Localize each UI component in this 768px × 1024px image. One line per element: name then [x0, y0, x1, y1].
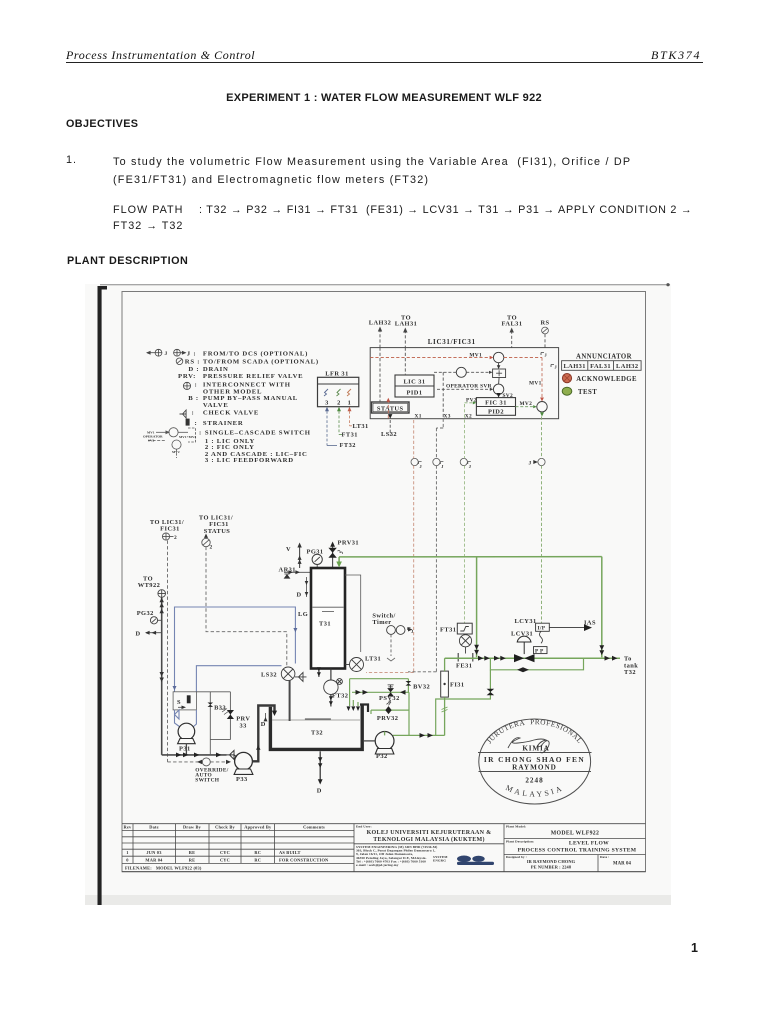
controller box LIC31/FIC31	[370, 348, 558, 419]
bypass B33 branch	[196, 691, 230, 693]
recorder input arrows	[325, 407, 329, 412]
svg-text:FIC31: FIC31	[160, 526, 180, 533]
svg-text:FI31: FI31	[450, 681, 465, 688]
svg-text:SWITCH: SWITCH	[195, 778, 219, 784]
svg-text:P33: P33	[236, 776, 248, 783]
X3 signal line to switch/timer	[408, 419, 443, 672]
LCV31 bypass line	[490, 658, 583, 670]
svg-text:PE NUMBER : 2248: PE NUMBER : 2248	[531, 865, 572, 870]
svg-text:CHECK VALVE: CHECK VALVE	[203, 409, 259, 416]
blue drop to P31	[175, 710, 197, 727]
svg-text:WT922: WT922	[138, 582, 161, 589]
MV2 signal line to LCY31	[541, 417, 543, 624]
strainer box	[173, 692, 196, 710]
X2 signal line to FT31	[464, 404, 466, 623]
main suction line left	[162, 597, 227, 755]
stamp signature	[508, 738, 549, 753]
LS32 status input	[388, 414, 392, 419]
svg-text::: :	[195, 381, 198, 388]
recorder pens	[324, 389, 328, 396]
svg-text:Designed by :: Designed by :	[506, 855, 527, 859]
svg-text:RS :: RS :	[185, 359, 200, 366]
flow element transmitter circle	[459, 635, 471, 647]
orifice FE31	[457, 653, 459, 662]
LS32 probe into T32	[289, 681, 291, 721]
svg-text:Approved By: Approved By	[244, 825, 272, 830]
svg-text:FOR CONSTRUCTION: FOR CONSTRUCTION	[279, 857, 329, 862]
annunciator windows	[562, 361, 642, 371]
J circle on X1 line	[411, 458, 422, 465]
svg-text:SV2: SV2	[503, 393, 514, 399]
svg-text:LAH32: LAH32	[369, 320, 392, 327]
flow path line 2	[113, 220, 183, 232]
svg-text:V: V	[286, 546, 291, 553]
svg-text:D: D	[136, 631, 141, 638]
svg-text:2: 2	[210, 545, 213, 551]
svg-text:X3: X3	[444, 413, 451, 419]
revision table headers	[124, 825, 325, 830]
flow path line 1	[113, 204, 183, 216]
svg-text:Rev: Rev	[124, 825, 133, 830]
svg-text:LAH31: LAH31	[395, 321, 418, 328]
main process pipe to LCV31	[445, 657, 620, 659]
svg-text:3 : LIC FEEDFORWARD: 3 : LIC FEEDFORWARD	[205, 457, 294, 464]
svg-text:LG: LG	[298, 611, 308, 618]
objective item number	[66, 154, 77, 166]
svg-text:PID2: PID2	[488, 409, 504, 416]
svg-text:ANNUNCIATOR: ANNUNCIATOR	[576, 353, 632, 360]
svg-text:MV1: MV1	[529, 381, 542, 387]
title block grid	[122, 824, 646, 872]
svg-text:PRESSURE RELIEF VALVE: PRESSURE RELIEF VALVE	[203, 373, 304, 380]
P33 discharge riser	[252, 706, 274, 762]
selector to summer arrow	[466, 371, 490, 373]
MV2 circle	[537, 402, 547, 412]
T32 right wall hook	[360, 705, 368, 713]
revision rows	[125, 850, 329, 870]
vendor address	[356, 845, 437, 867]
svg-text:PUMP BY–PASS MANUAL: PUMP BY–PASS MANUAL	[203, 395, 298, 402]
svg-text:FT31: FT31	[440, 627, 456, 634]
svg-text:KOLEJ UNIVERSITI KEJURUTERAAN: KOLEJ UNIVERSITI KEJURUTERAAN &	[367, 830, 492, 836]
svg-text:D: D	[317, 788, 322, 795]
legend symbol check valve	[180, 410, 187, 418]
BV32 return line	[350, 678, 409, 680]
svg-text::: :	[199, 429, 202, 436]
svg-text:T31: T31	[319, 620, 331, 627]
summer to SVR circle	[498, 378, 501, 385]
pump P31	[178, 723, 195, 740]
header rule	[66, 62, 703, 63]
selector circle	[456, 367, 466, 377]
svg-text:2: 2	[174, 535, 177, 541]
vendor logo	[433, 855, 494, 865]
gray internal drops	[379, 348, 381, 402]
svg-text:DRAIN: DRAIN	[203, 366, 229, 373]
T32 bottom drain	[319, 751, 321, 780]
svg-text:FIC 31: FIC 31	[485, 399, 507, 406]
control valve LCV31	[514, 654, 535, 662]
svg-text:SV2: SV2	[148, 438, 155, 442]
T31 bottom stubs	[318, 669, 320, 677]
green top pipe	[339, 556, 602, 558]
MV1 selector circle	[493, 352, 503, 362]
svg-text:33: 33	[240, 722, 247, 729]
svg-text:Date :: Date :	[600, 855, 609, 859]
tank T31	[311, 568, 345, 669]
flow arrows on main pipe	[478, 656, 484, 661]
summer block	[493, 369, 506, 378]
test button	[562, 387, 572, 395]
svg-text:MV1+MV2: MV1+MV2	[179, 435, 197, 439]
svg-text:FE31: FE31	[456, 663, 472, 670]
svg-text:RAYMOND: RAYMOND	[512, 764, 557, 772]
svg-text:1: 1	[348, 400, 352, 407]
svg-text:RC: RC	[254, 857, 261, 862]
svg-text:Plant Description:: Plant Description:	[506, 839, 534, 843]
legend symbol J from-dcs	[147, 349, 186, 356]
svg-text:KIMIA: KIMIA	[522, 745, 549, 753]
svg-text:LEVEL FLOW: LEVEL FLOW	[569, 841, 609, 847]
P32 discharge line	[393, 734, 445, 736]
svg-text:Comments: Comments	[303, 825, 325, 830]
svg-text:MV2: MV2	[172, 450, 180, 454]
svg-text:P32: P32	[376, 753, 388, 760]
svg-text:TO/FROM SCADA (OPTIONAL): TO/FROM SCADA (OPTIONAL)	[203, 359, 319, 366]
pump P32	[375, 732, 394, 751]
svg-text:FAL31: FAL31	[590, 363, 611, 370]
svg-text:LCY31: LCY31	[515, 618, 537, 625]
svg-text:LIC31/FIC31: LIC31/FIC31	[428, 338, 476, 346]
svg-text:Plant Model:: Plant Model:	[506, 824, 526, 828]
X1 signal line LT31 to LIC	[366, 420, 414, 673]
legend symbol RS scada	[176, 358, 183, 365]
scan top edge line	[100, 284, 670, 286]
svg-text:e-mail : sesb@pd.jaring.my: e-mail : sesb@pd.jaring.my	[356, 863, 399, 867]
svg-text:MODEL WLF922: MODEL WLF922	[551, 831, 599, 837]
PSV32 return riser	[408, 692, 410, 735]
green down pipe right	[601, 557, 603, 658]
svg-text:JUN 03: JUN 03	[146, 850, 162, 855]
relief valve PRV33 branch	[229, 692, 231, 740]
svg-text:2: 2	[337, 400, 341, 407]
svg-text:TEST: TEST	[578, 389, 597, 396]
svg-text:LFR 31: LFR 31	[325, 371, 348, 378]
J circle on X3 line	[433, 458, 444, 465]
svg-text:STATUS: STATUS	[204, 528, 231, 535]
svg-text:FT32: FT32	[332, 693, 348, 700]
svg-text:RC: RC	[254, 850, 261, 855]
green feed into T31 top	[338, 557, 340, 564]
PLANT DESCRIPTION heading	[67, 255, 188, 267]
svg-text:I/P: I/P	[538, 626, 546, 632]
drain branch below bypass	[436, 670, 491, 736]
P32 suction	[364, 740, 375, 742]
svg-text:Check By: Check By	[215, 825, 235, 830]
flow arrows on suction header	[176, 753, 189, 758]
svg-text:FAL31: FAL31	[502, 321, 523, 328]
svg-text:STATUS: STATUS	[377, 405, 404, 412]
svg-text:STRAINER: STRAINER	[203, 420, 244, 427]
svg-text::: :	[192, 409, 195, 416]
svg-text:LT31: LT31	[365, 656, 381, 663]
dashed link LIC to selector	[434, 371, 456, 373]
objective text	[113, 154, 673, 189]
green FT31 branch pipe	[476, 557, 478, 658]
svg-text:PID1: PID1	[406, 390, 422, 397]
OBJECTIVES heading	[66, 118, 138, 130]
svg-text:FT32: FT32	[340, 442, 356, 449]
svg-text:1: 1	[126, 850, 128, 855]
svg-text:X2: X2	[465, 413, 472, 419]
svg-text:RS: RS	[540, 320, 549, 327]
J pigtails near MV1	[541, 353, 544, 356]
svg-text:P P: P P	[535, 649, 544, 655]
J circle on MV2 line	[538, 458, 545, 465]
svg-text:X1: X1	[415, 413, 422, 419]
SVR circle	[493, 384, 503, 394]
svg-text:SINGLE–CASCADE SWITCH: SINGLE–CASCADE SWITCH	[205, 429, 311, 436]
pump P33	[235, 752, 253, 770]
svg-text:T32: T32	[624, 669, 636, 676]
svg-text:MAR 04: MAR 04	[145, 857, 163, 862]
svg-text:LAH31: LAH31	[563, 363, 586, 370]
svg-text:AS BUILT: AS BUILT	[279, 850, 301, 855]
magnetic flow meter FT32	[324, 679, 343, 695]
check valve before P33	[227, 750, 235, 759]
svg-text:PRV31: PRV31	[338, 539, 360, 546]
svg-text:Timer: Timer	[372, 619, 391, 626]
page header right	[651, 48, 701, 63]
scan background	[85, 284, 671, 905]
blue LG loop upper	[175, 607, 296, 692]
svg-text:3: 3	[325, 400, 329, 407]
svg-text:J: J	[165, 351, 168, 357]
legend symbol interconnect	[183, 382, 190, 389]
svg-text:MAR 04: MAR 04	[613, 862, 632, 867]
svg-text:PRV:: PRV:	[178, 373, 196, 380]
svg-text:LS32: LS32	[381, 431, 397, 438]
svg-text:Date: Date	[149, 825, 159, 830]
svg-text:IR RAYMOND CHONG: IR RAYMOND CHONG	[527, 859, 576, 864]
svg-text:P31: P31	[179, 745, 191, 752]
svg-text:CYC: CYC	[220, 850, 230, 855]
controller FIC31 PID2	[476, 398, 515, 416]
check valve between LS32 and T31 drain	[295, 672, 307, 681]
svg-text:RE: RE	[189, 857, 196, 862]
svg-text:2248: 2248	[525, 776, 543, 784]
acknowledge button	[562, 374, 571, 383]
valve BV32	[407, 679, 409, 693]
svg-text:S: S	[177, 699, 181, 706]
svg-text:RE: RE	[189, 850, 196, 855]
svg-text:J :: J :	[187, 350, 197, 357]
svg-text:LAH32: LAH32	[616, 363, 639, 370]
MV1 circle to summer	[498, 363, 500, 368]
svg-text:CYC: CYC	[220, 857, 230, 862]
svg-text:J: J	[529, 460, 532, 466]
level gauge line right of T31	[345, 575, 361, 652]
J circle on X2 line	[460, 458, 471, 465]
controller LIC31 PID1	[395, 375, 434, 397]
SVR to FIC31 SV2 arrow	[498, 395, 500, 396]
svg-text:Draw By: Draw By	[183, 825, 202, 830]
svg-text::: :	[195, 420, 198, 427]
relief valve PSV32	[387, 688, 394, 696]
title	[0, 92, 768, 104]
svg-text:FILENAME: MODEL WLF922 (03): FILENAME: MODEL WLF922 (03)	[125, 866, 202, 871]
svg-text:D :: D :	[188, 366, 199, 373]
diagram frame	[122, 292, 646, 872]
legend text column	[178, 350, 319, 464]
svg-text:FT31: FT31	[342, 432, 358, 439]
svg-text:D: D	[297, 592, 302, 599]
svg-text:ACKNOWLEDGE: ACKNOWLEDGE	[576, 376, 637, 383]
svg-text:PROCESS CONTROL TRAINING SY: PROCESS CONTROL TRAINING SYSTEM	[518, 848, 637, 854]
relief valve PRV32	[385, 706, 391, 714]
PRV32 line	[371, 709, 409, 711]
professional engineer stamp	[478, 719, 592, 804]
svg-text:TEKNOLOGI MALAYSIA (KUKTEM): TEKNOLOGI MALAYSIA (KUKTEM)	[373, 836, 485, 843]
override auto switch	[168, 761, 203, 763]
FI31 riser pipes	[444, 658, 446, 671]
book spine bar	[98, 286, 108, 905]
down arrows on suction	[160, 672, 164, 677]
svg-text:PRV32: PRV32	[377, 715, 399, 722]
page header left	[66, 48, 255, 63]
svg-text:INTERCONNECT WITH: INTERCONNECT WITH	[203, 381, 291, 388]
svg-text:D: D	[261, 721, 266, 728]
red MV1 input dashes	[370, 358, 542, 419]
legend symbol cascade switch	[148, 428, 196, 458]
STATUS box	[372, 402, 410, 413]
svg-text:MV2: MV2	[520, 401, 533, 407]
svg-text:PG32: PG32	[137, 610, 154, 617]
PSV32 line	[352, 691, 409, 693]
svg-text:LS32: LS32	[261, 671, 277, 678]
svg-text:FROM/TO DCS (OPTIONAL): FROM/TO DCS (OPTIONAL)	[203, 350, 308, 357]
svg-text:T32: T32	[311, 730, 323, 737]
svg-text:ENGRG: ENGRG	[433, 859, 446, 863]
svg-text:LT31: LT31	[353, 423, 369, 430]
svg-text:OPERATOR SVR: OPERATOR SVR	[446, 383, 492, 389]
return arrows into T32	[347, 706, 361, 711]
FT32 outlet into T32	[330, 694, 332, 706]
stamp text lines	[484, 745, 585, 785]
rotameter FI31	[441, 671, 449, 697]
svg-text:BV32: BV32	[413, 683, 430, 690]
tank T32	[270, 704, 362, 750]
page number	[691, 941, 699, 955]
svg-text:B :: B :	[188, 395, 199, 402]
svg-text:VALVE: VALVE	[203, 402, 229, 409]
legend symbol strainer	[186, 419, 190, 426]
svg-text:End User:: End User:	[356, 824, 372, 828]
svg-text:LIC 31: LIC 31	[403, 379, 425, 386]
recorder signal drops	[326, 411, 328, 446]
